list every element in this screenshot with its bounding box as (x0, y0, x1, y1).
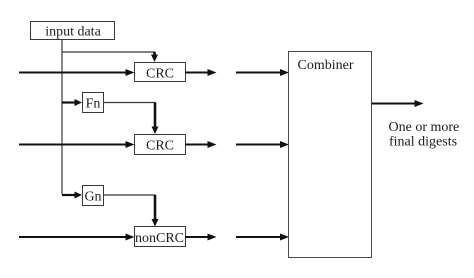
svg-text:Combiner: Combiner (298, 58, 354, 73)
input data box (31, 22, 115, 40)
box Combiner (289, 52, 372, 258)
arrow row2 into Combiner (236, 141, 289, 148)
wire: Gn output to nonCRC top (104, 195, 156, 203)
box CRC2 (135, 135, 186, 155)
arrow row3 input (19, 234, 135, 241)
wire: arrow into Gn (62, 194, 76, 196)
svg-text:Gn: Gn (84, 190, 101, 205)
svg-text:nonCRC: nonCRC (135, 231, 184, 246)
box nonCRC (135, 227, 186, 247)
arrow row1 input (19, 69, 135, 76)
svg-text:CRC: CRC (146, 67, 174, 82)
svg-text:CRC: CRC (146, 139, 174, 154)
box CRC1 (135, 63, 186, 82)
arrow Combiner output (372, 100, 424, 107)
svg-text:final digests: final digests (389, 135, 457, 150)
wire: Fn output to CRC2 top (104, 103, 156, 111)
arrow row2 CRC2 output (185, 141, 217, 148)
wire: arrow into Fn (62, 101, 76, 103)
label: One or more final digests (389, 120, 460, 150)
wire: branch to CRC1 top (62, 52, 155, 55)
arrow row1 CRC1 output (185, 69, 217, 76)
arrow row3 nonCRC output (185, 234, 217, 241)
box Gn (83, 186, 104, 206)
arrow row1 into Combiner (236, 69, 289, 76)
arrow row2 input (19, 141, 135, 148)
box Fn (83, 93, 104, 113)
svg-text:Fn: Fn (86, 97, 101, 112)
arrow row3 into Combiner (236, 234, 289, 241)
svg-text:One or more: One or more (389, 120, 460, 135)
svg-text:input data: input data (45, 25, 101, 40)
wire: vertical trunk from input data (61, 40, 63, 195)
